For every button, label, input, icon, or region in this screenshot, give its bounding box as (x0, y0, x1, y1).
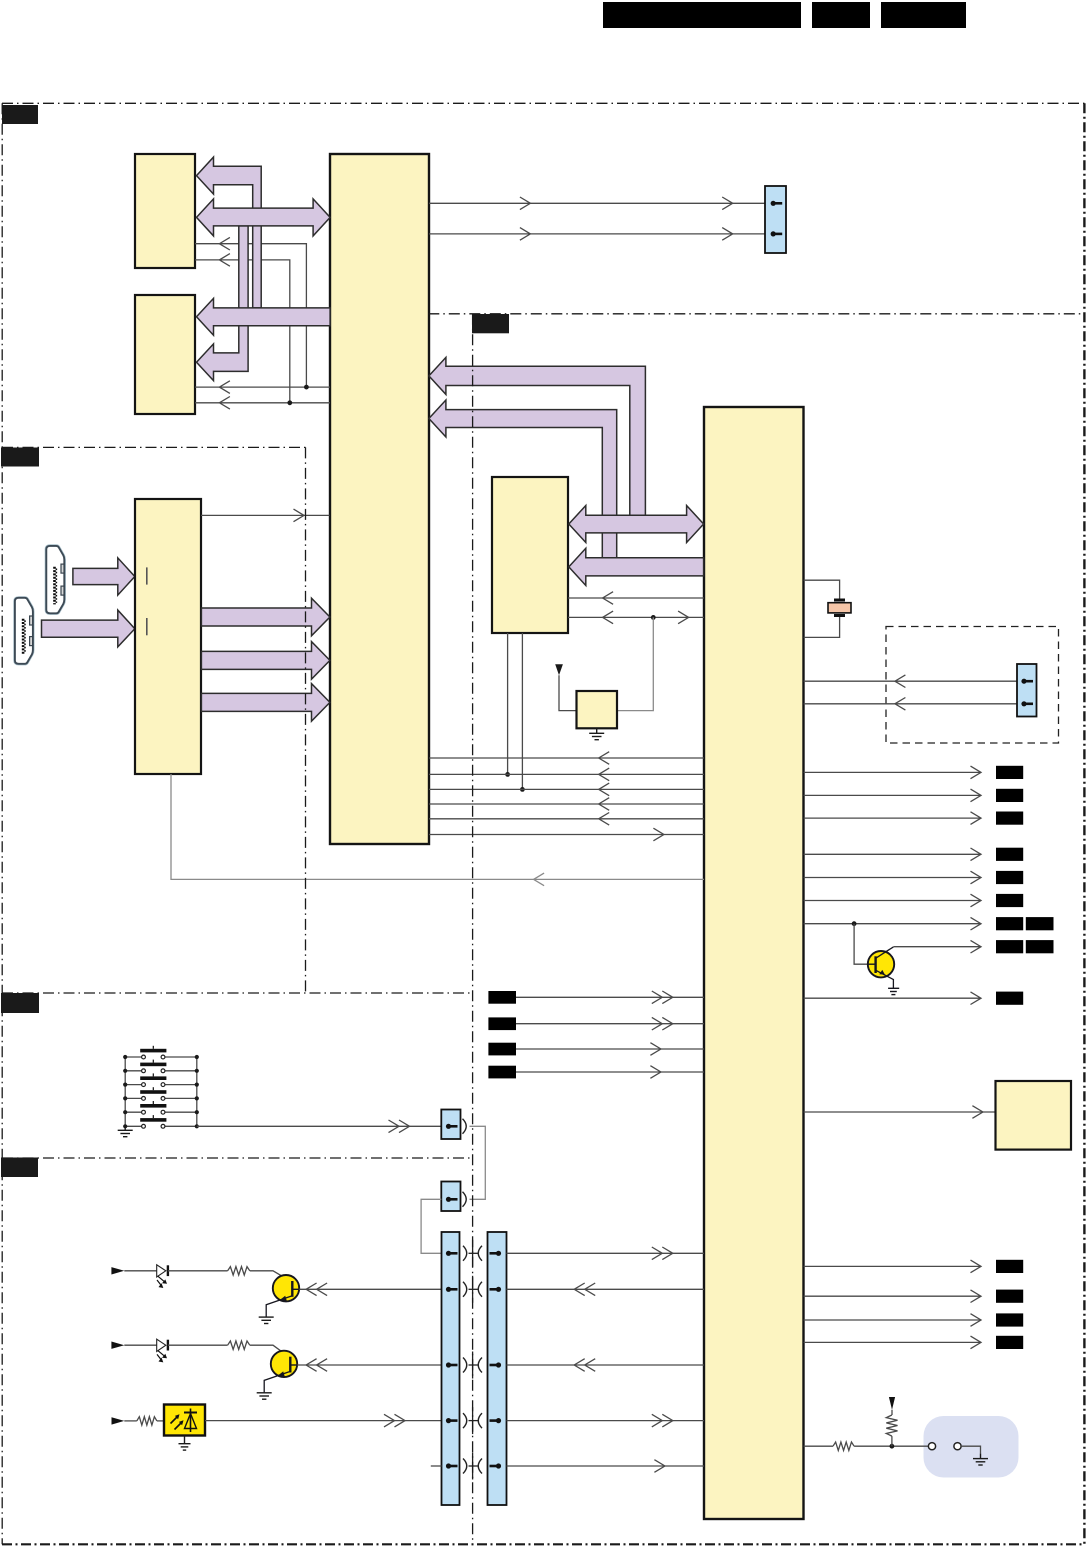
wire label K1 to U10 (516, 996, 704, 998)
wire junction to Q1 base (854, 924, 868, 965)
crystal X1 plate top (834, 599, 845, 602)
net label A1 (redacted) (996, 766, 1023, 779)
LED LED1 (157, 1265, 166, 1277)
connector CN3 pin (446, 1124, 451, 1129)
ground switch (980, 1454, 982, 1459)
wire U10 output C1 (804, 923, 981, 925)
wire power to pull-up resistor (891, 1410, 893, 1415)
net label E4 (redacted) (996, 1336, 1023, 1349)
wire U2 bottom to U10 (DDC) (171, 774, 704, 879)
block U7 (996, 1081, 1072, 1150)
wire CN6 row5 to U10 (507, 1465, 705, 1467)
wire CN6 row4 to U10 (507, 1420, 705, 1422)
wire U10 output E1 (804, 1265, 981, 1267)
hdmi section top border (dash-dot) (2, 446, 306, 448)
wire junction to U4 module (617, 617, 653, 710)
signal input arrow IR (112, 1417, 125, 1424)
wire antenna to U4 (559, 675, 577, 710)
wire U6 control 2 (195, 402, 330, 404)
wire U1 to J1 pin1 (429, 202, 765, 204)
keypad section top border (dash-dot) (2, 992, 473, 994)
connector J1 pin 2 (771, 231, 776, 236)
board outline left border (dash-dot) (1, 103, 3, 1544)
wire input to LED LED1 (124, 1270, 156, 1272)
net label E3 (redacted) (996, 1313, 1023, 1326)
mating interface row 4 (463, 1413, 467, 1428)
wire U10 to U7 (804, 1111, 996, 1113)
net label K2 (redacted) (488, 1017, 516, 1030)
wire U10 output A1 (804, 771, 981, 773)
transistor Q1 (868, 951, 894, 977)
digital section top border (dash-dot) (428, 313, 1084, 315)
connector J2 (1017, 664, 1037, 717)
U2 pin mark 1 (146, 567, 148, 584)
wire U10 to J2 pin2 (804, 703, 1017, 705)
crystal X1 wire top (804, 580, 840, 598)
remote dashed enclosure (886, 627, 1059, 744)
connector J1 (765, 186, 786, 253)
wire LED to resistor LED2 (168, 1344, 228, 1346)
wire U1-U10 row 2 (429, 773, 704, 775)
junction node to U4 (651, 615, 656, 620)
connector J1 pin 1 (771, 201, 776, 206)
connector CN5 pin 3 (446, 1362, 451, 1367)
front section top border (dash-dot) (2, 1157, 473, 1159)
bus arrow F (U3-U10 bidirectional) (569, 506, 704, 543)
board outline top border (dash-dot) (2, 102, 1084, 104)
connector CN5 (left half) (442, 1232, 460, 1505)
net label B2 (redacted) (996, 871, 1023, 884)
junction node control 1 (304, 385, 309, 390)
section label 1 (redacted) (2, 105, 38, 124)
resistor LED1 (228, 1267, 250, 1275)
wire Q1 collector to label C2 (893, 946, 981, 948)
net label C1b (redacted) (1026, 917, 1054, 930)
connector CN6 pin 3 (496, 1362, 501, 1367)
resistor R1 (series) (833, 1442, 854, 1450)
bus arrow K2 (U2 to U1) (201, 642, 330, 680)
ground U4 (596, 728, 598, 733)
main IC U1 (330, 154, 429, 844)
title bar redaction 2 (812, 2, 870, 28)
IR receiver module (164, 1405, 205, 1436)
connector CN6 pin 2 (496, 1287, 501, 1292)
board outline right border (dash-dot) (1083, 103, 1085, 1544)
junction node row3 (520, 787, 525, 792)
switch SW contact 2 (954, 1443, 961, 1450)
wire CN5 to Q base LED1 (299, 1288, 441, 1290)
wire U5 control 2 (195, 260, 290, 403)
mating interface row 3 (463, 1358, 467, 1373)
connector CN4 (441, 1182, 460, 1212)
wire CN5 to Q base LED2 (297, 1364, 441, 1366)
net label E2 (redacted) (996, 1290, 1023, 1303)
wire U1-U10 row 5 (429, 818, 704, 820)
wire label K3 to U10 (516, 1048, 704, 1050)
wire U10 output A3 (804, 817, 981, 819)
wire U10 output B2 (804, 877, 981, 879)
mating interface row 2 (463, 1282, 467, 1297)
signal input arrow LED1 (111, 1267, 124, 1274)
junction node Q1 base (852, 921, 857, 926)
net label C2b (redacted) (1026, 940, 1054, 953)
bus arrow K1 (U2 to U1) (201, 598, 330, 636)
bus arrow G (U10 to U3) (569, 548, 704, 585)
hdmi section right border (dash-dot) (305, 447, 307, 993)
main IC U10 (system processor) (704, 407, 804, 1519)
wire U10 output E4 (804, 1341, 981, 1343)
net label A2 (redacted) (996, 789, 1023, 802)
ground Q LED2 (263, 1391, 265, 1394)
mating interface row 1 (463, 1246, 467, 1261)
wire resistor to Q LED2 (250, 1345, 290, 1358)
wire switch to ground (961, 1446, 980, 1453)
section label 3 (redacted) (1, 993, 39, 1013)
wire U10 output B1 (804, 853, 981, 855)
keypad left bus (124, 1057, 126, 1126)
wire U10 to U3 signal 2 (bidirectional) (568, 616, 704, 618)
key switch SW4 (125, 1097, 141, 1099)
title bar redaction 1 (603, 2, 801, 28)
connector J2 pin 1 (1021, 679, 1026, 684)
bus arrow HDMI input 2 (42, 610, 135, 647)
connector CN5 pin 5 (446, 1463, 451, 1468)
wire U10 output E2 (804, 1295, 981, 1297)
net label B3 (redacted) (996, 894, 1023, 907)
bus arrow A (U1 to U5 upper, L-shaped) (197, 157, 262, 308)
signal input arrow LED2 (111, 1342, 124, 1349)
wire resistor to Q LED1 (250, 1271, 292, 1282)
wire U10 to CN6 row2 (507, 1288, 705, 1290)
wire resistor to switch (854, 1445, 928, 1447)
net label B1 (redacted) (996, 848, 1023, 861)
bus arrow HDMI input 1 (73, 558, 135, 595)
HDMI connector CN2 (15, 598, 33, 664)
resistor LED2 (228, 1341, 250, 1349)
wire CN5 row5 stub (431, 1465, 442, 1467)
HDMI connector CN1 (46, 546, 64, 613)
net label K1 (redacted) (488, 991, 516, 1004)
title bar redaction 3 (881, 2, 966, 28)
junction node control 2 (287, 400, 292, 405)
connector CN6 pin 5 (496, 1463, 501, 1468)
wire label K2 to U10 (516, 1023, 704, 1025)
LED LED2 (157, 1339, 166, 1351)
keypad right bus (196, 1057, 198, 1126)
wire U10 output E3 (804, 1319, 981, 1321)
ground IR module (184, 1436, 186, 1444)
power symbol (supply arrow) (889, 1397, 895, 1410)
mating interface row 5 (463, 1459, 467, 1474)
junction node reset (890, 1444, 895, 1449)
connector CN6 pin 1 (496, 1251, 501, 1256)
wire IR to CN5 (205, 1420, 442, 1422)
wire CN6 row1 to U10 (507, 1252, 705, 1254)
wire resistor to IR box (157, 1420, 164, 1422)
connector CN5 pin 1 (446, 1251, 451, 1256)
wire LED to resistor LED1 (168, 1270, 228, 1272)
section label 2 (redacted) (1, 448, 39, 467)
HDMI switch U2 (135, 499, 201, 774)
transistor Q LED1 (273, 1275, 299, 1301)
crystal X1 plate bottom (834, 614, 845, 617)
memory block U5 (135, 154, 195, 268)
wire U1 to J1 pin2 (429, 233, 765, 235)
net label C1 (redacted) (996, 917, 1023, 930)
section label 5 digital (redacted) (472, 314, 509, 333)
wire keypad to CN3 (197, 1125, 441, 1127)
connector CN5 pin 4 (446, 1418, 451, 1423)
connector CN3 (441, 1110, 460, 1140)
switch enclosure (rounded) (924, 1416, 1019, 1478)
wire U1-U10 row 6 (429, 834, 704, 836)
connector CN3 mating arc (463, 1119, 467, 1134)
net label C2 (redacted) (996, 940, 1023, 953)
bus arrow D (U1 to U6) (197, 298, 331, 335)
bus arrow K3 (U2 to U1) (201, 684, 330, 722)
connector CN4 mating arc (463, 1192, 467, 1207)
wire U2 to U1 (hot plug) (201, 514, 330, 516)
crystal X1 wire bottom (804, 617, 840, 637)
net label A3 (redacted) (996, 812, 1023, 825)
wire U10 to reset resistor (804, 1445, 833, 1447)
key switch SW5 (125, 1111, 141, 1113)
board outline bottom border (dash-dot) (2, 1543, 1084, 1545)
wireless module U4 (577, 691, 618, 728)
wire label K4 to U10 (516, 1071, 704, 1073)
wire U10 to CN6 row3 (507, 1364, 705, 1366)
wire U3 bottom to bus row 2 (507, 633, 509, 774)
wire U5 control 1 (195, 244, 306, 387)
transistor Q LED2 (271, 1351, 297, 1377)
connector CN6 pin 4 (496, 1418, 501, 1423)
wire pull-up to junction (891, 1436, 893, 1446)
wire input to LED LED2 (124, 1344, 156, 1346)
bus arrow E (to U6 lower, L-shaped) (197, 226, 249, 381)
wire U10 output D1 (804, 997, 981, 999)
ground Q LED1 (265, 1316, 267, 1319)
companion IC U3 (492, 477, 568, 633)
connector CN6 (right half) (488, 1232, 507, 1505)
wire U6 control 1 (195, 386, 330, 388)
wire U10 output B3 (804, 900, 981, 902)
memory block U6 (135, 295, 195, 414)
section label 4 (redacted) (1, 1158, 38, 1178)
bus arrow B (U1-U5 bidirectional) (197, 199, 331, 236)
wire U10 to J2 pin1 (804, 680, 1017, 682)
crystal X1 body (828, 603, 851, 613)
junction node row2 (505, 772, 510, 777)
net label D1 (redacted) (996, 992, 1023, 1005)
U2 pin mark 2 (146, 618, 148, 635)
wire U10 output A2 (804, 794, 981, 796)
net label K3 (redacted) (488, 1043, 516, 1056)
ground keypad (124, 1126, 126, 1130)
wire U3 bottom to bus row 3 (521, 633, 523, 789)
digital section left border vertical divider (dash-dot) (472, 314, 474, 1545)
ground Q1 emitter (888, 987, 899, 989)
wire input to IR resistor (124, 1420, 137, 1422)
key switch SW2 (125, 1070, 141, 1072)
bus arrow I (U10 to U1 lower, L-shaped) (429, 400, 617, 558)
wire U1-U10 row 4 (429, 803, 704, 805)
wire CN4 to CN5 row1 (421, 1199, 441, 1253)
connector CN4 pin (446, 1197, 451, 1202)
connector CN5 pin 2 (446, 1287, 451, 1292)
antenna symbol (555, 664, 563, 675)
net label E1 (redacted) (996, 1260, 1023, 1273)
resistor IR (137, 1417, 157, 1425)
wire U10 to U3 signal 1 (568, 597, 704, 599)
net label K4 (redacted) (488, 1066, 516, 1079)
key switch SW6 (125, 1125, 141, 1127)
wire U1-U10 row 3 (429, 788, 704, 790)
wire CN3 to CN4 loop (470, 1126, 486, 1199)
connector J2 pin 2 (1021, 701, 1026, 706)
resistor R2 (pull-up) (886, 1415, 897, 1436)
bus arrow H (U10 to U1 upper, L-shaped) (429, 357, 646, 515)
wire U1-U10 row 1 (429, 757, 704, 759)
key switch SW1 (125, 1056, 141, 1058)
switch SW contact 1 (928, 1443, 935, 1450)
key switch SW3 (125, 1084, 141, 1086)
